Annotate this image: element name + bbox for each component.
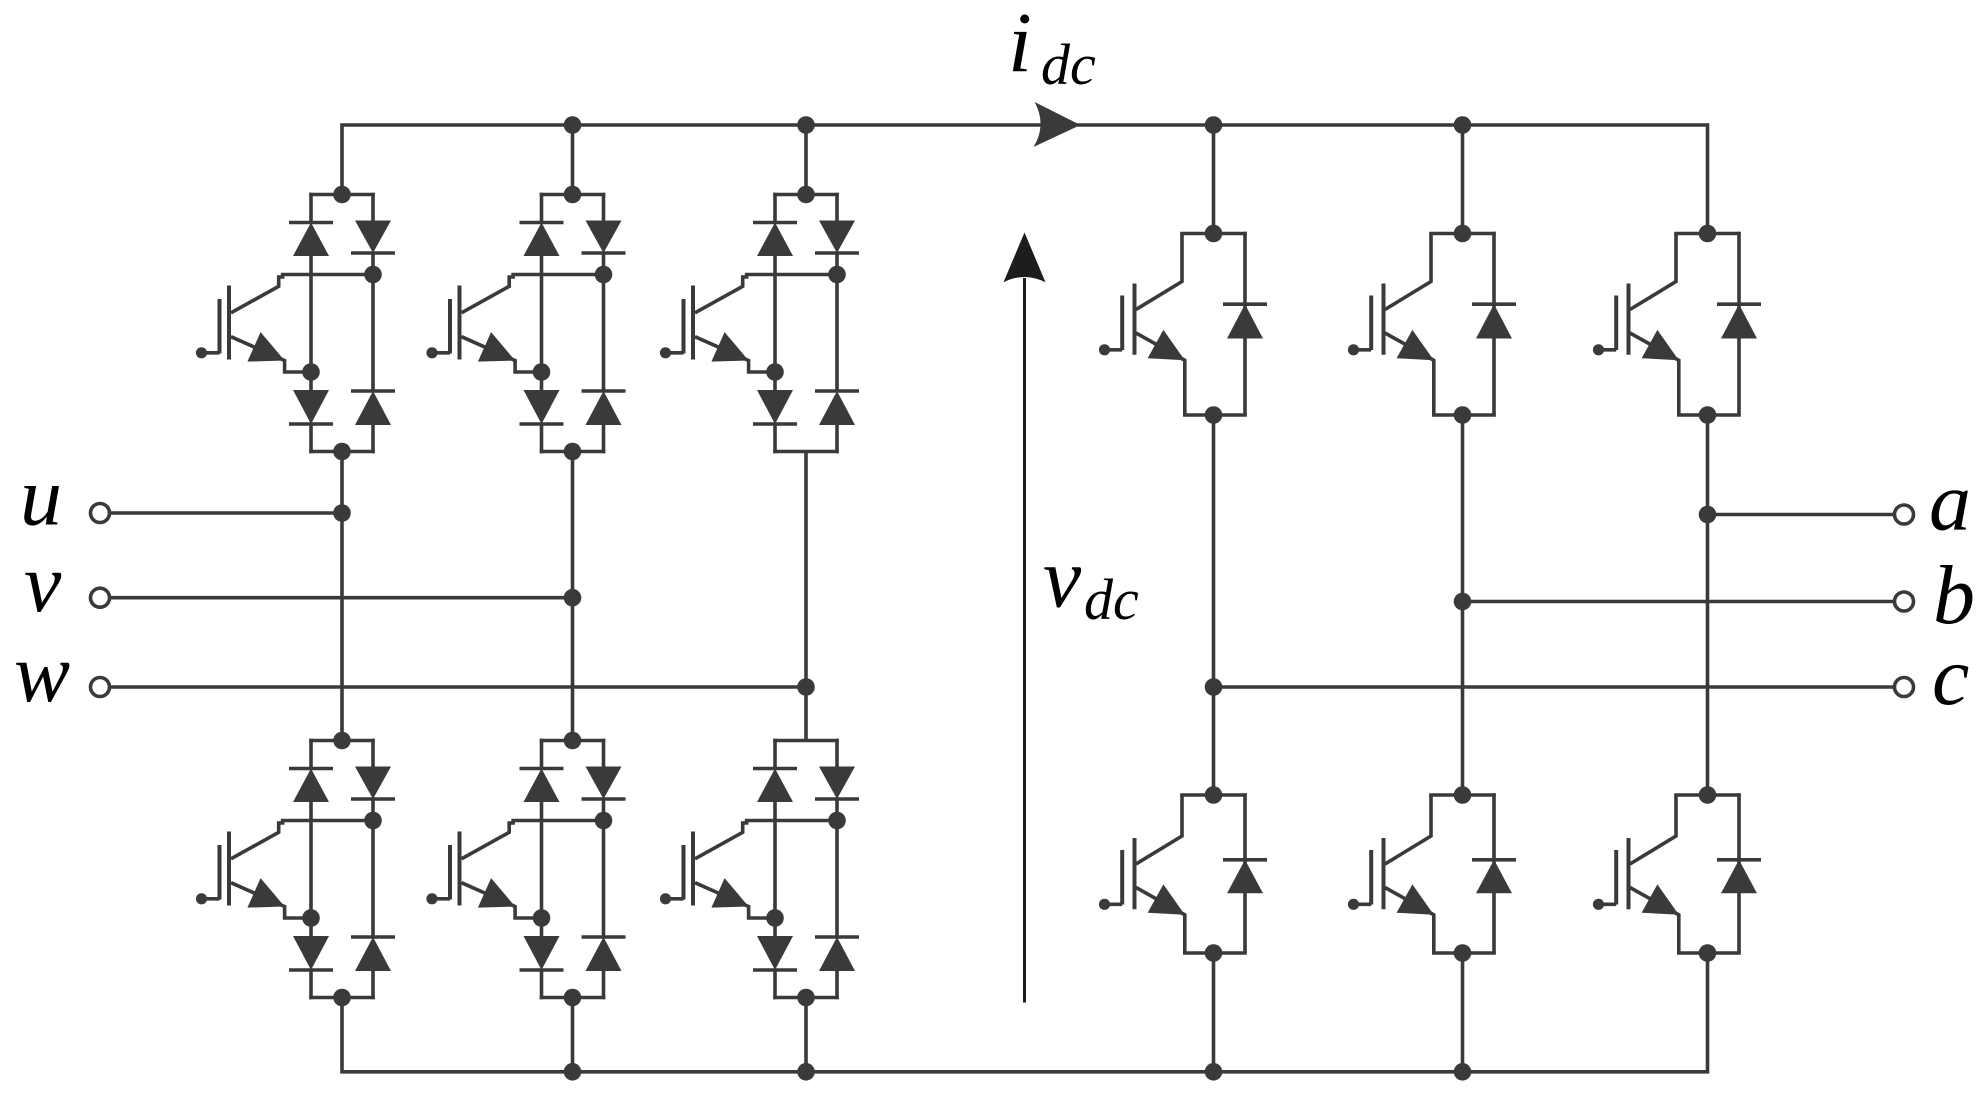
wire: top bar of Tcp bbox=[1674, 232, 1741, 236]
IGBT switch cell Tcp (upper, output column c) bbox=[1593, 225, 1761, 424]
node: top of S2u bbox=[333, 732, 351, 750]
bidirectional switch cell S1v (upper, input column v) bbox=[426, 186, 625, 461]
diode D1 of S1u (conducts up) bbox=[289, 223, 333, 257]
wire: top bar of Tan bbox=[1180, 793, 1247, 797]
wire: collector of S1v to right branch bbox=[462, 275, 604, 313]
wire: top bar of S2u bbox=[309, 739, 375, 743]
diode D2 of S1v (conducts down) bbox=[582, 221, 626, 254]
wire: collector of S1u to right branch bbox=[231, 275, 373, 313]
node: bottom of S1u bbox=[333, 443, 351, 461]
wire: input u bbox=[110, 511, 343, 515]
wire: emitter of Tcp with arrow to bottom bar bbox=[1630, 330, 1741, 415]
diode D2 of S2v (conducts down) bbox=[582, 767, 626, 800]
svg-text:b: b bbox=[1933, 549, 1975, 642]
wire: left branch upper of S2w bbox=[773, 739, 777, 769]
svg-text:dc: dc bbox=[1041, 32, 1096, 97]
wire: bottom bar of S1w bbox=[773, 450, 839, 454]
wire: output a bbox=[1708, 513, 1895, 517]
IGBT of S2v (gate, bars, gate terminal) bbox=[426, 832, 459, 906]
node: bottom rail / column R2 bbox=[1454, 1063, 1472, 1081]
wire: right branch lower of S2v bbox=[602, 971, 606, 999]
IGBT of S2w (gate, bars, gate terminal) bbox=[660, 832, 693, 906]
IGBT of S2u (gate, bars, gate terminal) bbox=[196, 832, 229, 906]
bidirectional switch cell S1w (upper, input column w) bbox=[660, 186, 859, 454]
node: emitter junction of S1w bbox=[766, 363, 784, 381]
bidirectional switch cell S1u (upper, input column u) bbox=[196, 186, 395, 461]
wire: emitter of S2v with arrow to left branch bbox=[462, 878, 542, 918]
wire: right branch lower of S1w bbox=[835, 425, 839, 453]
IGBT switch cell Tap (upper, output column a) bbox=[1099, 225, 1267, 424]
wire: right branch upper of S2u bbox=[371, 739, 375, 767]
terminal: c bbox=[1895, 678, 1914, 697]
terminal: v bbox=[91, 588, 110, 607]
node: top of S1w bbox=[797, 186, 815, 204]
diode D1 of S2v (conducts up) bbox=[520, 769, 564, 803]
diode D3 of S1u (conducts down) bbox=[289, 390, 333, 424]
wire: right branch lower of S2u bbox=[371, 971, 375, 999]
wire: diode branch of Tap bbox=[1243, 232, 1247, 415]
diode D of Tbp (antiparallel, conducts up) bbox=[1472, 304, 1516, 338]
node: top of Tbp bbox=[1454, 225, 1472, 243]
diode D2 of S1u (conducts down) bbox=[351, 221, 395, 254]
node: collector junction of S2v bbox=[595, 812, 613, 830]
wire: top bar of Tbn bbox=[1429, 793, 1496, 797]
IGBT switch cell Tbn (lower, output column b) bbox=[1348, 786, 1516, 962]
wire: column R1 to bottom rail bbox=[1212, 953, 1216, 1072]
node: v / column L2 bbox=[564, 589, 582, 607]
svg-text:w: w bbox=[14, 627, 70, 720]
diode D4 of S1v (conducts up) bbox=[582, 391, 626, 425]
node: bottom of Tap bbox=[1205, 406, 1223, 424]
node: top rail / column L2 bbox=[564, 116, 582, 134]
IGBT of Tbp (gate, bars, gate terminal) bbox=[1348, 284, 1384, 356]
bidirectional switch cell S2v (lower, input column v) bbox=[426, 732, 625, 1007]
diode D1 of S1v (conducts up) bbox=[520, 223, 564, 257]
wire: emitter of S1v with arrow to left branch bbox=[462, 332, 542, 372]
wire: right branch middle of S1v bbox=[602, 253, 606, 391]
node: collector junction of S2w bbox=[828, 812, 846, 830]
wire: left branch lower of S2u bbox=[309, 970, 313, 999]
wire: right branch upper of S2v bbox=[602, 739, 606, 767]
IGBT of Tap (gate, bars, gate terminal) bbox=[1099, 284, 1135, 356]
wire: diode branch of Tbn bbox=[1492, 793, 1496, 953]
wire: collector lead of Tan bbox=[1136, 795, 1182, 864]
node: bottom of Tan bbox=[1205, 944, 1223, 962]
node: w / column L3 bbox=[797, 678, 815, 696]
node: bottom of S2u bbox=[333, 989, 351, 1007]
node: top of S2v bbox=[564, 732, 582, 750]
node: collector junction of S1u bbox=[364, 266, 382, 284]
wire: left branch lower of S1u bbox=[309, 424, 313, 453]
IGBT switch cell Tbp (upper, output column b) bbox=[1348, 225, 1516, 424]
node: top of S1v bbox=[564, 186, 582, 204]
wire: left branch lower of S2w bbox=[773, 970, 777, 999]
node: top rail / column L3 bbox=[797, 116, 815, 134]
diode D3 of S2w (conducts down) bbox=[753, 936, 797, 970]
wire: collector lead of Tbp bbox=[1385, 234, 1431, 310]
arrow: v_dc voltage reference bbox=[1004, 233, 1046, 1003]
wire: right branch middle of S1w bbox=[835, 253, 839, 391]
svg-text:u: u bbox=[20, 451, 62, 544]
diode D2 of S1w (conducts down) bbox=[815, 221, 859, 254]
wire: bottom bar of S1v bbox=[540, 450, 606, 454]
wire: top bar of S1u bbox=[309, 193, 375, 197]
IGBT of Tcp (gate, bars, gate terminal) bbox=[1593, 284, 1629, 356]
diode D of Tcp (antiparallel, conducts up) bbox=[1717, 304, 1761, 338]
wire: collector lead of Tcp bbox=[1630, 234, 1676, 310]
bidirectional switch cell S2w (lower, input column w) bbox=[660, 739, 859, 1007]
diode D3 of S2v (conducts down) bbox=[520, 936, 564, 970]
node: top rail / column R2 bbox=[1454, 116, 1472, 134]
node: emitter junction of S1v bbox=[533, 363, 551, 381]
svg-text:v: v bbox=[24, 537, 62, 630]
wire: collector lead of Tbn bbox=[1385, 795, 1431, 864]
diode D4 of S1u (conducts up) bbox=[351, 391, 395, 425]
wire: right branch lower of S2w bbox=[835, 971, 839, 999]
diode D1 of S1w (conducts up) bbox=[753, 223, 797, 257]
node: bottom rail / column R1 bbox=[1205, 1063, 1223, 1081]
wire: bottom bar of S2w bbox=[773, 996, 839, 1000]
wire: output b bbox=[1463, 600, 1895, 604]
wire: column R2 to bottom rail bbox=[1461, 953, 1465, 1072]
wire: collector of S2v to right branch bbox=[462, 821, 604, 859]
bidirectional switch cell S2u (lower, input column u) bbox=[196, 732, 395, 1007]
node: bottom of S2w bbox=[797, 989, 815, 1007]
wire: left branch upper of S1w bbox=[773, 193, 777, 223]
wire: emitter of Tbp with arrow to bottom bar bbox=[1385, 330, 1496, 415]
wire: column L2 to bottom rail bbox=[571, 998, 575, 1072]
terminal: b bbox=[1895, 592, 1914, 611]
IGBT switch cell Tcn (lower, output column c) bbox=[1593, 786, 1761, 962]
wire: column L3 from top rail bbox=[804, 125, 808, 195]
node: a / column R3 bbox=[1699, 506, 1717, 524]
wire: right branch middle of S2w bbox=[835, 799, 839, 937]
wire: column L3 to bottom rail bbox=[804, 998, 808, 1072]
wire: emitter of S2u with arrow to left branch bbox=[231, 878, 311, 918]
wire: column L3 mid bbox=[804, 452, 808, 741]
node: collector junction of S1w bbox=[828, 266, 846, 284]
wire: left branch middle of S2u bbox=[309, 802, 313, 936]
node: top of Tap bbox=[1205, 225, 1223, 243]
wire: right branch upper of S1w bbox=[835, 193, 839, 221]
wire: input w bbox=[110, 685, 807, 689]
wire: emitter of S2w with arrow to left branch bbox=[695, 878, 775, 918]
wire: top bar of S1w bbox=[773, 193, 839, 197]
wire: emitter of Tbn with arrow to bottom bar bbox=[1385, 884, 1496, 953]
node: c / column R1 bbox=[1205, 678, 1223, 696]
node: emitter junction of S2w bbox=[766, 909, 784, 927]
wire: bottom bar of S1u bbox=[309, 450, 375, 454]
wire: collector lead of Tcn bbox=[1630, 795, 1676, 864]
wire: diode branch of Tcp bbox=[1737, 232, 1741, 415]
wire: left branch upper of S1u bbox=[309, 193, 313, 223]
wire: input v bbox=[110, 596, 573, 600]
wire: left branch upper of S2v bbox=[540, 739, 544, 769]
wire: left branch upper of S1v bbox=[540, 193, 544, 223]
wire: right branch upper of S2w bbox=[835, 739, 839, 767]
wire: column R3 mid bbox=[1706, 415, 1710, 795]
IGBT of S1u (gate, bars, gate terminal) bbox=[196, 286, 229, 360]
svg-text:a: a bbox=[1929, 456, 1971, 549]
node: b / column R2 bbox=[1454, 593, 1472, 611]
diode D4 of S2v (conducts up) bbox=[582, 937, 626, 971]
wire: left branch lower of S2v bbox=[540, 970, 544, 999]
node: bottom of Tbn bbox=[1454, 944, 1472, 962]
node: bottom of Tcp bbox=[1699, 406, 1717, 424]
wire: left branch lower of S1v bbox=[540, 424, 544, 453]
wire: emitter of Tan with arrow to bottom bar bbox=[1136, 884, 1247, 953]
node: emitter junction of S1u bbox=[302, 363, 320, 381]
wire: top bar of S2w bbox=[773, 739, 839, 743]
diode D3 of S1w (conducts down) bbox=[753, 390, 797, 424]
wire: column R1 mid bbox=[1212, 415, 1216, 795]
wire: bottom DC rail bbox=[342, 953, 1708, 1072]
svg-text:c: c bbox=[1932, 630, 1969, 723]
wire: column R2 from top rail bbox=[1461, 125, 1465, 234]
wire: emitter of S1u with arrow to left branch bbox=[231, 332, 311, 372]
diode D4 of S2u (conducts up) bbox=[351, 937, 395, 971]
node: collector junction of S1v bbox=[595, 266, 613, 284]
wire: bottom bar of S2u bbox=[309, 996, 375, 1000]
wire: right branch middle of S2u bbox=[371, 799, 375, 937]
diode D1 of S2u (conducts up) bbox=[289, 769, 333, 803]
node: top of Tcp bbox=[1699, 225, 1717, 243]
wire: column L1 mid bbox=[340, 452, 344, 741]
wire: left branch middle of S2v bbox=[540, 802, 544, 936]
node: top of Tcn bbox=[1699, 786, 1717, 804]
wire: right branch upper of S1u bbox=[371, 193, 375, 221]
terminal: w bbox=[91, 678, 110, 697]
IGBT of Tbn (gate, bars, gate terminal) bbox=[1348, 838, 1384, 910]
diode D3 of S1v (conducts down) bbox=[520, 390, 564, 424]
wire: right branch lower of S1v bbox=[602, 425, 606, 453]
svg-text:i: i bbox=[1008, 0, 1032, 91]
diode D1 of S2w (conducts up) bbox=[753, 769, 797, 803]
wire: top bar of Tbp bbox=[1429, 232, 1496, 236]
wire: right branch middle of S2v bbox=[602, 799, 606, 937]
wire: column L2 from top rail bbox=[571, 125, 575, 195]
svg-text:dc: dc bbox=[1084, 567, 1139, 632]
wire: right branch lower of S1u bbox=[371, 425, 375, 453]
diode D2 of S2u (conducts down) bbox=[351, 767, 395, 800]
wire: diode branch of Tbp bbox=[1492, 232, 1496, 415]
node: bottom rail / column L2 bbox=[564, 1063, 582, 1081]
svg-text:v: v bbox=[1043, 530, 1082, 626]
wire: emitter of S1w with arrow to left branch bbox=[695, 332, 775, 372]
node: top of S1u bbox=[333, 186, 351, 204]
node: bottom of S1v bbox=[564, 443, 582, 461]
node: bottom of Tbp bbox=[1454, 406, 1472, 424]
wire: emitter of Tap with arrow to bottom bar bbox=[1136, 330, 1247, 415]
wire: left branch middle of S1v bbox=[540, 256, 544, 390]
diode D of Tbn (antiparallel, conducts up) bbox=[1472, 860, 1516, 894]
diode D of Tcn (antiparallel, conducts up) bbox=[1717, 860, 1761, 894]
wire: left branch middle of S1w bbox=[773, 256, 777, 390]
diode D of Tap (antiparallel, conducts up) bbox=[1223, 304, 1267, 338]
node: u / column L1 bbox=[333, 504, 351, 522]
wire: emitter of Tcn with arrow to bottom bar bbox=[1630, 884, 1741, 953]
arrow: i_dc current direction bbox=[1034, 102, 1081, 147]
IGBT of S1w (gate, bars, gate terminal) bbox=[660, 286, 693, 360]
wire: bottom bar of S2v bbox=[540, 996, 606, 1000]
node: collector junction of S2u bbox=[364, 812, 382, 830]
wire: top bar of Tap bbox=[1180, 232, 1247, 236]
wire: left branch lower of S1w bbox=[773, 424, 777, 453]
node: top rail / column R1 bbox=[1205, 116, 1223, 134]
wire: top DC rail bbox=[342, 125, 1708, 234]
wire: diode branch of Tan bbox=[1243, 793, 1247, 953]
wire: left branch upper of S2u bbox=[309, 739, 313, 769]
node: top of Tbn bbox=[1454, 786, 1472, 804]
diode D of Tan (antiparallel, conducts up) bbox=[1223, 860, 1267, 894]
wire: collector of S1w to right branch bbox=[695, 275, 837, 313]
wire: top bar of S1v bbox=[540, 193, 606, 197]
wire: collector of S2u to right branch bbox=[231, 821, 373, 859]
wire: right branch middle of S1u bbox=[371, 253, 375, 391]
node: bottom rail / column L3 bbox=[797, 1063, 815, 1081]
node: emitter junction of S2u bbox=[302, 909, 320, 927]
diode D4 of S2w (conducts up) bbox=[815, 937, 859, 971]
node: emitter junction of S2v bbox=[533, 909, 551, 927]
node: bottom of S2v bbox=[564, 989, 582, 1007]
wire: top bar of S2v bbox=[540, 739, 606, 743]
terminal: a bbox=[1895, 505, 1914, 524]
IGBT of Tan (gate, bars, gate terminal) bbox=[1099, 838, 1135, 910]
wire: left branch middle of S1u bbox=[309, 256, 313, 390]
diode D2 of S2w (conducts down) bbox=[815, 767, 859, 800]
wire: diode branch of Tcn bbox=[1737, 793, 1741, 953]
node: bottom of Tcn bbox=[1699, 944, 1717, 962]
diode D4 of S1w (conducts up) bbox=[815, 391, 859, 425]
IGBT of S1v (gate, bars, gate terminal) bbox=[426, 286, 459, 360]
wire: column R1 from top rail bbox=[1212, 125, 1216, 234]
wire: column L2 mid bbox=[571, 452, 575, 741]
wire: left branch middle of S2w bbox=[773, 802, 777, 936]
IGBT of Tcn (gate, bars, gate terminal) bbox=[1593, 838, 1629, 910]
terminal: u bbox=[91, 504, 110, 523]
diode D3 of S2u (conducts down) bbox=[289, 936, 333, 970]
wire: collector of S2w to right branch bbox=[695, 821, 837, 859]
wire: collector lead of Tap bbox=[1136, 234, 1182, 310]
node: top of Tan bbox=[1205, 786, 1223, 804]
wire: output c bbox=[1214, 685, 1895, 689]
wire: top bar of Tcn bbox=[1674, 793, 1741, 797]
IGBT switch cell Tan (lower, output column a) bbox=[1099, 786, 1267, 962]
wire: right branch upper of S1v bbox=[602, 193, 606, 221]
wire: column R2 mid bbox=[1461, 415, 1465, 795]
